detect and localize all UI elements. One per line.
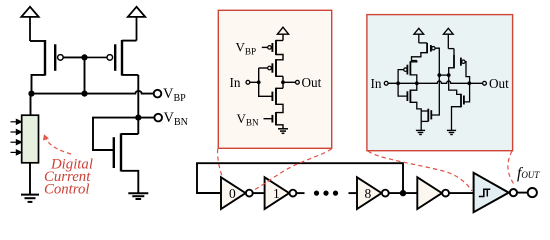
transistor P3 right PMOS: [448, 49, 469, 84]
node In gate blue: [396, 81, 400, 85]
transistor P2 middle PMOS: [412, 43, 440, 75]
wire mid rail with hops: [388, 81, 482, 83]
terminal VBP: [154, 90, 162, 98]
inverter 0: [221, 177, 253, 209]
svg-text:In: In: [230, 75, 241, 90]
wire schmitt to output: [517, 192, 528, 194]
callout dash blue-left: [368, 151, 472, 191]
terminal Out red box: [296, 80, 300, 84]
node gate junction: [81, 54, 87, 60]
wire bridge: [439, 74, 448, 76]
svg-text:Out: Out: [489, 76, 509, 91]
transistor P1 input PMOS: [398, 61, 417, 84]
pin arrows into DAC: [11, 119, 22, 154]
wire output column red box: [282, 76, 284, 88]
wire inv0 to inv1: [253, 192, 265, 194]
ground M3: [128, 193, 148, 199]
wire VBN node to terminal: [138, 117, 154, 119]
transistor M3 NMOS: [114, 133, 139, 192]
vdd symbol blue left: [414, 28, 424, 43]
node stack1 drain: [415, 81, 419, 85]
svg-text:Control: Control: [44, 182, 90, 198]
svg-text:1: 1: [273, 186, 280, 201]
red callout box: [218, 10, 331, 148]
blue callout box: [367, 15, 513, 151]
wire out red box: [283, 81, 296, 83]
transistor MP1 bias PMOS: [262, 40, 283, 60]
transistor M1 PMOS: [30, 40, 63, 94]
vdd symbol red box: [277, 27, 288, 40]
terminal In blue box: [384, 81, 388, 85]
node out drain blue: [467, 81, 471, 85]
inverter 8: [357, 177, 389, 209]
digital current control DAC box: [22, 115, 39, 163]
wire gate node down to VBP rail: [84, 57, 86, 93]
transistor MN1 inverter NMOS: [272, 88, 283, 113]
node bridge 1: [437, 73, 441, 77]
wire gate M2 to node: [85, 56, 108, 58]
wire inv1 out: [296, 192, 304, 194]
ground red box: [278, 129, 288, 134]
transistor N2 middle NMOS: [421, 109, 431, 122]
terminal fOUT: [528, 188, 537, 197]
svg-text:0: 0: [229, 186, 236, 201]
node In gate: [257, 80, 261, 84]
callout dash blue-right: [508, 151, 514, 184]
ellipsis dots: [314, 191, 338, 196]
wire In to gate: [250, 81, 259, 83]
annotation arrow digital control: [43, 134, 71, 154]
ground DAC: [21, 195, 39, 202]
terminal VBN: [154, 114, 162, 122]
hysteresis symbol: [479, 189, 491, 196]
node bridge 2: [447, 73, 451, 77]
vdd symbol VDD1: [21, 7, 38, 41]
wire cross vertical 1: [431, 75, 439, 115]
wire into inv8: [349, 192, 358, 194]
transistor MP2 inverter PMOS: [259, 59, 283, 77]
wire rail to DAC box: [30, 94, 32, 116]
vdd symbol blue right: [443, 28, 453, 48]
svg-text:In: In: [371, 76, 382, 91]
wire M2 drain down through hop to VBN node and M3 drain: [137, 75, 139, 134]
ground blue right: [447, 130, 456, 134]
wire M3 gate loop: [93, 118, 138, 150]
buffer stage: [417, 177, 449, 209]
terminal Out blue box: [483, 81, 487, 85]
node VBN junction: [135, 115, 141, 121]
svg-text:8: 8: [365, 186, 372, 201]
callout dash red-right: [253, 149, 332, 191]
wire input gate rail red box: [259, 68, 273, 96]
wire cross vertical 2: [449, 75, 461, 94]
svg-text:Out: Out: [302, 75, 322, 90]
schmitt trigger buffer: [474, 173, 517, 212]
wire gate M1 to node: [63, 56, 84, 58]
transistor N1 input NMOS: [398, 83, 421, 130]
transistor MN2 bias NMOS: [264, 112, 284, 129]
node gate rail junction: [81, 91, 87, 97]
node output red box: [281, 80, 285, 84]
node M1 drain on rail: [28, 91, 34, 97]
transistor M2 PMOS: [107, 40, 138, 76]
vdd symbol VDD2: [128, 7, 145, 41]
wire feedback loop: [197, 163, 403, 193]
callout dash red-left: [218, 149, 223, 177]
wire inv8 to buffer: [389, 192, 418, 194]
inverter 1: [265, 177, 297, 209]
terminal In red box: [246, 80, 250, 84]
node feedback tap: [400, 190, 406, 196]
wire buffer to schmitt: [449, 192, 474, 194]
wire VBP rail with hop: [32, 91, 154, 94]
ground blue left: [416, 130, 425, 134]
transistor N3 right NMOS: [452, 85, 470, 130]
wire DAC to ground: [29, 163, 31, 194]
